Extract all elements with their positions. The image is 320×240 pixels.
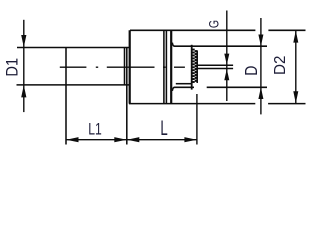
arrow D1 top [21,35,26,47]
centerline dot 1 [96,66,98,68]
svg-text:G: G [206,20,222,28]
D bottom extension line [207,86,267,88]
D2 top extension (right segment) [268,29,305,31]
shank bottom edge [17,84,131,86]
svg-text:D2: D2 [271,56,288,75]
centerline dash 3 [174,66,185,68]
neck top fillet [172,43,174,47]
centerline dash 2 [107,66,155,68]
dimension line D [260,18,262,114]
dimension line L1 and L [66,139,197,141]
stud top edge [197,64,233,66]
arrow D top [258,35,263,47]
shank top edge [17,47,130,49]
body groove line 2 [165,30,167,103]
svg-text:D1: D1 [3,58,21,77]
body right face [170,30,172,103]
arrow D1 bottom [21,85,26,97]
body groove line 1 [163,30,165,103]
neck top edge + D top extension [174,45,267,47]
neck bottom fillet [172,87,174,91]
svg-text:L: L [160,116,168,140]
junction line x124.5 [124,48,126,85]
neck relief line [176,83,192,85]
arrow L1 left [66,137,78,142]
centerline dot 2 [163,66,166,68]
arrow D2 bottom [293,91,298,103]
thread right face [196,50,198,83]
L right extension line [196,94,198,145]
thread teeth column A [193,49,195,51]
arrow L left [127,137,139,142]
thread serration teeth [193,49,198,83]
body left face [129,30,131,103]
stud bottom edge [197,68,233,70]
centerline dash 1 [60,66,87,68]
shank collar line x66 + L1 extension [65,48,67,145]
junction line x126.8 + L extension [126,48,128,145]
thread teeth column B [195,50,197,52]
thread left face [191,45,193,90]
arrow D bottom [258,87,263,99]
arrow G bottom [224,69,229,80]
svg-text:D: D [242,66,262,76]
arrow L1 right [114,137,126,142]
arrow L right [184,137,196,142]
dimension line G [226,11,228,102]
neck bottom edge [174,86,194,88]
body bottom edge + D2 bottom extension (left segment) [129,103,255,105]
arrow G top [224,54,229,65]
dimension line D1 [23,20,25,112]
svg-text:L1: L1 [88,121,102,139]
D2 bottom extension (right segment) [268,103,305,105]
arrow D2 top [293,31,298,43]
body top edge + D2 top extension (left segment) [130,29,255,31]
dimension line D2 [295,30,297,103]
